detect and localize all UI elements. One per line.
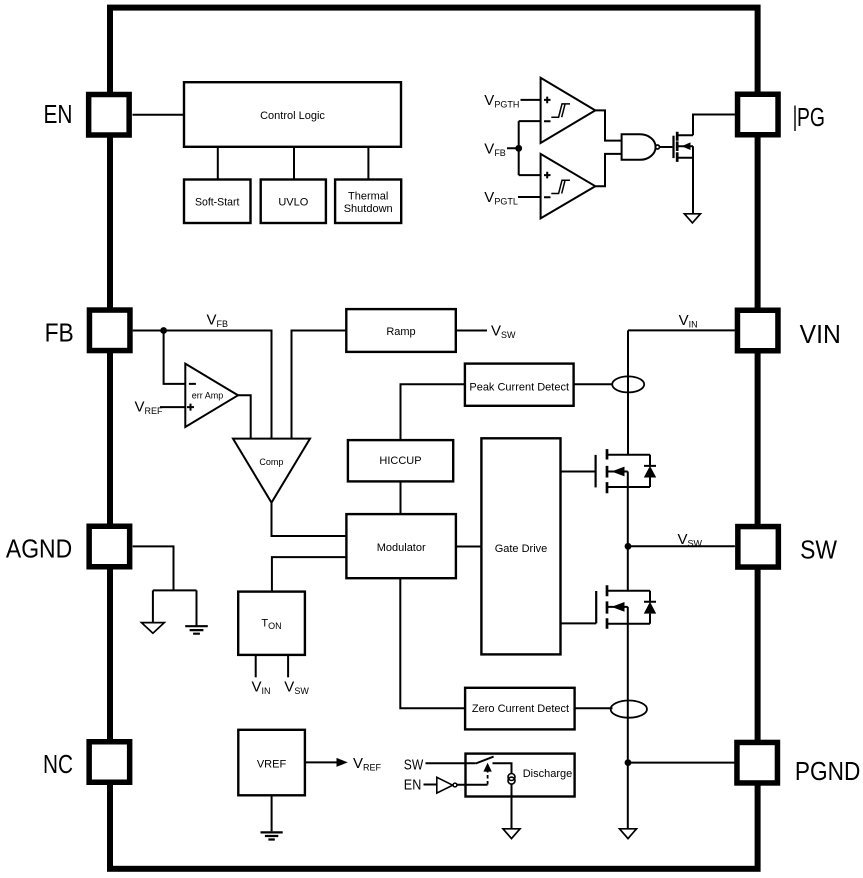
wire VREF to errAmp non-inverting input	[160, 406, 185, 408]
block Modulator	[346, 514, 456, 578]
svg-text:VIN: VIN	[800, 319, 841, 349]
wire current source to ground	[511, 784, 513, 828]
block Ramp	[346, 309, 456, 352]
node VFB junction	[515, 145, 522, 152]
wire Control Logic to Thermal Shutdown	[367, 147, 369, 180]
svg-text:EN: EN	[44, 99, 73, 129]
svg-text:Modulator: Modulator	[377, 542, 426, 554]
wire TON input VIN	[255, 655, 257, 677]
wire VPGTL to lower comparator	[518, 196, 541, 198]
wire HICCUP to Modulator	[400, 481, 402, 514]
block HICCUP	[348, 440, 453, 481]
node FB junction	[160, 327, 167, 334]
wire VIN pin to power rail	[628, 329, 735, 331]
svg-text:PGND: PGND	[795, 756, 860, 786]
wire Comp output to Modulator	[272, 503, 347, 536]
node SW junction	[625, 543, 632, 550]
block VREF	[238, 730, 305, 796]
wire lower comparator output to NAND	[595, 154, 621, 186]
wire PGND node down to ground	[627, 763, 629, 829]
switch S1 discharge	[476, 757, 494, 764]
svg-text:VFB: VFB	[207, 311, 229, 329]
wire PG FET source to ground	[692, 146, 694, 213]
arrowhead VREF output	[337, 758, 348, 767]
cursor artifact before PG	[794, 106, 795, 132]
ground AGND arrow	[142, 623, 165, 634]
block TON	[238, 592, 305, 655]
svg-text:Peak Current Detect: Peak Current Detect	[469, 382, 569, 394]
transistor Q3 PG open-drain FET	[672, 136, 674, 158]
ground VREF earth	[261, 832, 283, 839]
pin EN	[89, 95, 129, 136]
wire low-side source down to PGND node	[627, 624, 629, 763]
wire PG FET drain to PG pin	[693, 115, 735, 136]
svg-text:Thermal: Thermal	[348, 190, 388, 202]
svg-text:Ramp: Ramp	[386, 326, 415, 338]
block Discharge	[466, 754, 575, 797]
svg-text:err Amp: err Amp	[192, 391, 224, 401]
svg-text:Gate Drive: Gate Drive	[495, 543, 548, 555]
transistor Q1 high-side FET	[561, 471, 596, 473]
block Soft-Start	[184, 180, 251, 224]
comparator U2 lower PG	[541, 154, 596, 219]
wire Modulator to Gate Drive	[456, 546, 482, 548]
svg-text:SW: SW	[800, 535, 837, 565]
wire buffer to switch control	[457, 784, 488, 786]
svg-text:Zero Current Detect: Zero Current Detect	[472, 703, 569, 715]
wire VFB to comparators	[507, 121, 541, 175]
wire Control Logic to Soft-Start	[217, 147, 219, 180]
block UVLO	[261, 180, 326, 224]
wire upper comparator output to NAND	[595, 110, 621, 140]
svg-text:Comp: Comp	[259, 457, 283, 467]
svg-text:AGND: AGND	[6, 533, 72, 563]
svg-text:VIN: VIN	[679, 312, 698, 330]
svg-text:Soft-Start: Soft-Start	[195, 197, 240, 209]
wire VIN rail down to high-side FET drain	[627, 330, 629, 454]
wire VREF block output arrow	[305, 761, 337, 763]
wire EN through buffer	[424, 784, 437, 786]
wire NAND output to PG FET gate	[660, 146, 673, 148]
svg-text:VREF: VREF	[353, 755, 382, 773]
svg-text:Control Logic: Control Logic	[260, 110, 325, 122]
pin PGND	[737, 742, 778, 783]
wire SW node to SW pin	[628, 545, 735, 547]
svg-text:VREF: VREF	[257, 759, 287, 771]
wire HICCUP to Peak Current Detect	[401, 384, 465, 440]
wire AGND pin to ground symbols	[133, 546, 197, 626]
block Control Logic	[184, 82, 401, 147]
wire switch to current source	[493, 763, 512, 773]
wire Peak Current Detect to sense ellipse	[574, 383, 613, 385]
IC package outline	[110, 8, 758, 869]
wire errAmp output to Comp	[238, 395, 251, 438]
pin AGND	[89, 526, 129, 567]
pin SW	[738, 527, 779, 568]
wire PGND node to PGND pin	[628, 762, 735, 764]
wire VREF block to ground	[271, 795, 273, 831]
node PGND junction	[625, 759, 632, 766]
wire VPGTH to upper comparator	[521, 99, 541, 101]
svg-text:PG: PG	[797, 102, 825, 132]
buffer U4 EN inverter	[437, 777, 453, 793]
svg-text:VSW: VSW	[284, 679, 309, 697]
svg-text:Shutdown: Shutdown	[344, 203, 393, 215]
diode D2 low-side body diode	[644, 591, 656, 624]
sense ellipse peak current	[612, 376, 644, 392]
svg-text:VREF: VREF	[135, 399, 164, 417]
wire Control Logic to UVLO	[293, 147, 295, 180]
wire TON input VSW	[287, 655, 289, 677]
diode D1 high-side body diode	[644, 455, 656, 487]
svg-text:Discharge: Discharge	[523, 768, 573, 780]
block Gate Drive	[481, 438, 560, 654]
wire Modulator to Zero Current Detect	[400, 578, 465, 708]
wire Zero Current Detect to sense ellipse	[575, 707, 613, 709]
svg-text:VFB: VFB	[484, 140, 506, 158]
current source I1	[508, 774, 515, 781]
wire SW into discharge switch	[426, 762, 476, 764]
ground PG FET source	[684, 214, 700, 223]
wire TON to Modulator	[272, 557, 347, 592]
NAND gate U3	[622, 134, 656, 160]
wire EN pin to Control Logic	[133, 114, 185, 116]
wire Ramp to VSW label	[456, 330, 487, 332]
svg-text:VSW: VSW	[678, 531, 703, 549]
svg-text:VPGTL: VPGTL	[484, 189, 518, 207]
svg-text:NC: NC	[43, 749, 73, 779]
comparator Comp	[233, 439, 310, 503]
ground PGND arrow	[620, 829, 637, 839]
ground discharge arrow	[503, 829, 520, 839]
ground AGND earth	[185, 626, 208, 634]
pin NC	[89, 742, 129, 783]
svg-text:FB: FB	[45, 318, 74, 348]
wire Ramp output (left) to Comp	[292, 331, 347, 439]
transistor Q2 low-side FET	[561, 622, 597, 624]
pin VIN	[737, 310, 778, 351]
block Zero Current Detect	[465, 688, 574, 730]
svg-text:VSW: VSW	[491, 322, 516, 340]
wire high-side source to SW node to low-side drain	[627, 487, 629, 591]
comparator U1 upper PG	[541, 78, 596, 143]
svg-text:VPGTH: VPGTH	[484, 92, 519, 110]
block Peak Current Detect	[465, 364, 574, 406]
svg-text:SW: SW	[404, 756, 424, 773]
block Thermal Shutdown	[335, 180, 401, 224]
svg-text:HICCUP: HICCUP	[379, 455, 421, 467]
svg-text:UVLO: UVLO	[278, 197, 308, 209]
svg-text:EN: EN	[404, 777, 422, 794]
wire FB pin to Comp (VFB net)	[133, 331, 272, 439]
wire dashed switch actuation	[487, 771, 489, 785]
pin PG	[738, 94, 779, 135]
svg-text:VIN: VIN	[252, 679, 271, 697]
sense ellipse zero current	[611, 701, 647, 718]
wire FB node down to errAmp inverting input	[164, 331, 186, 384]
op-amp errAmp	[185, 364, 238, 427]
pin FB	[89, 310, 130, 351]
